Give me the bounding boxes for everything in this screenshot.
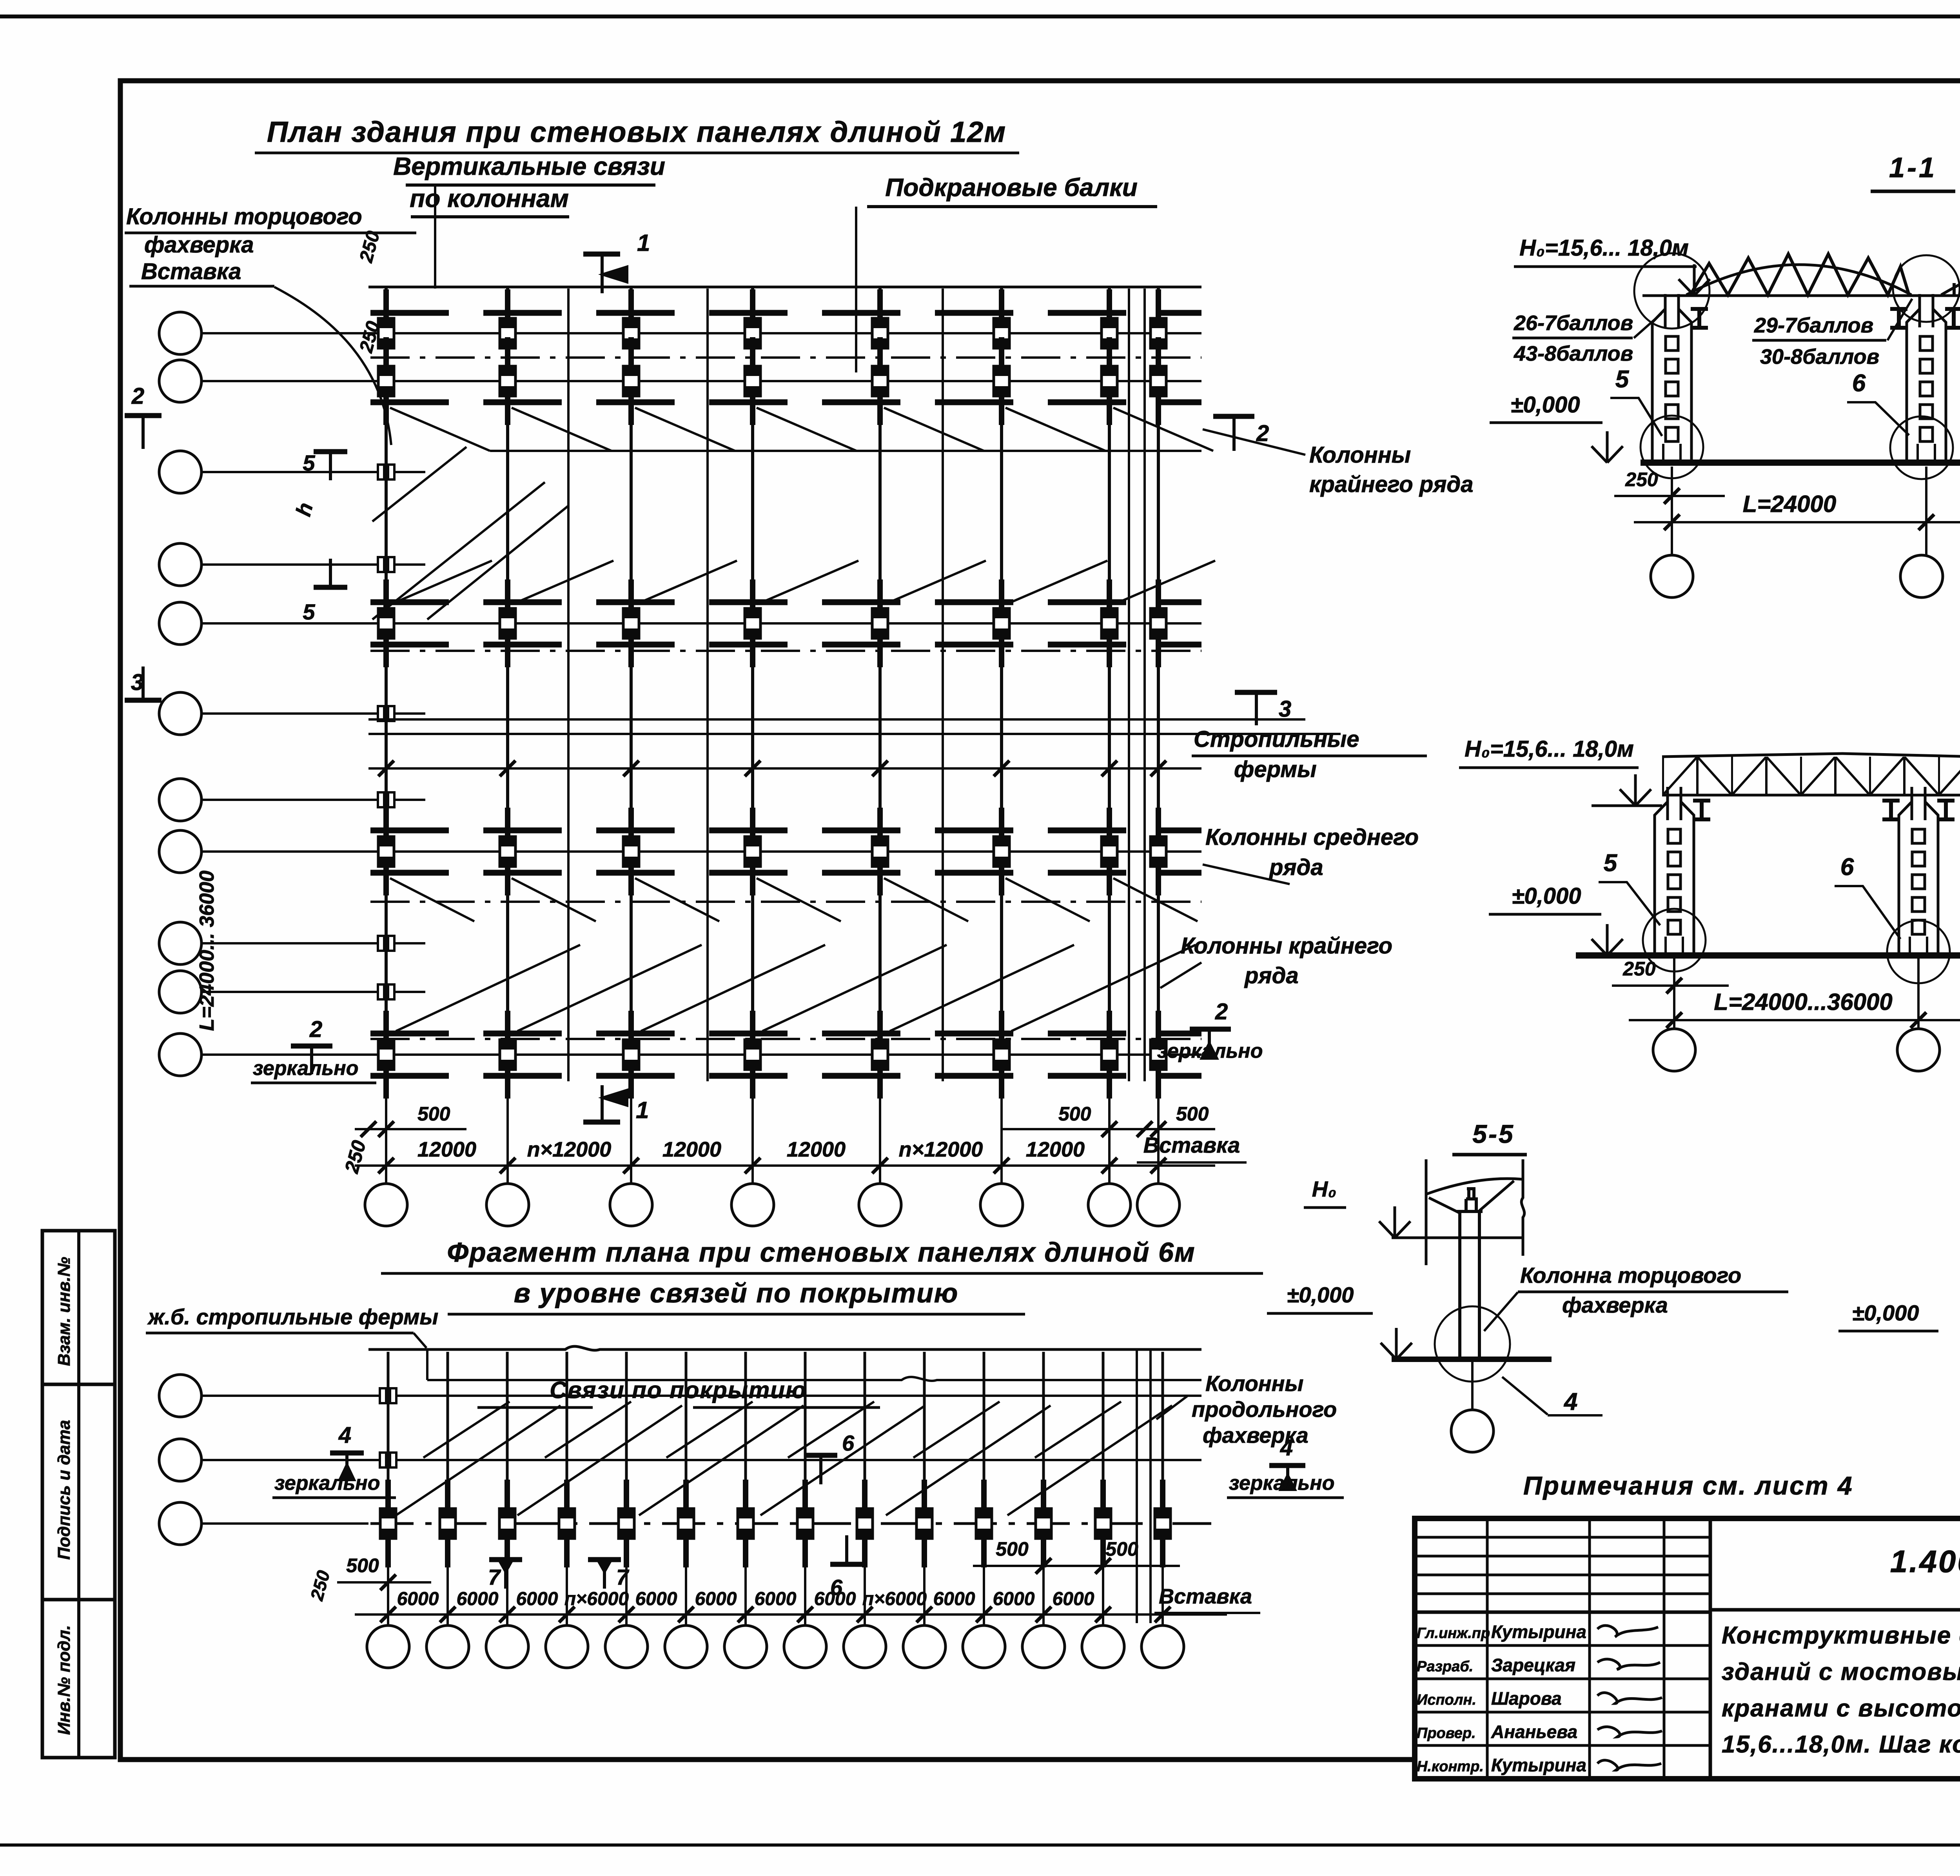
svg-text:26-7баллов: 26-7баллов xyxy=(1514,311,1633,335)
plan main dimension line xyxy=(355,1164,1215,1167)
svg-text:29-7баллов: 29-7баллов xyxy=(1754,314,1873,337)
section B axis bubbles xyxy=(1653,1029,1695,1071)
svg-text:5-5: 5-5 xyxy=(1472,1119,1514,1148)
svg-text:H₀=15,6... 18,0м: H₀=15,6... 18,0м xyxy=(1465,736,1634,762)
svg-text:по колоннам: по колоннам xyxy=(410,184,569,212)
fragment mark 7 b xyxy=(588,1557,621,1562)
svg-text:Разраб.: Разраб. xyxy=(1417,1658,1473,1675)
signature squiggle xyxy=(1597,1693,1662,1703)
fragment left axis bubbles xyxy=(159,1375,201,1417)
section mark 1 top xyxy=(583,252,620,257)
svg-text:кранами с высотой этажа: кранами с высотой этажа xyxy=(1722,1695,1960,1722)
section mark 1 bottom xyxy=(583,1120,620,1125)
svg-text:фахверка: фахверка xyxy=(144,232,254,258)
svg-text:ряда: ряда xyxy=(1269,855,1323,880)
svg-text:зеркально: зеркально xyxy=(1229,1472,1334,1495)
svg-text:H₀=15,6... 18,0м: H₀=15,6... 18,0м xyxy=(1519,235,1689,261)
svg-text:12000: 12000 xyxy=(1026,1138,1085,1161)
svg-text:6: 6 xyxy=(842,1431,855,1455)
svg-text:6000: 6000 xyxy=(457,1589,499,1609)
svg-text:Шарова: Шарова xyxy=(1491,1688,1562,1709)
svg-text:±0,000: ±0,000 xyxy=(1287,1282,1354,1307)
svg-text:Зарецкая: Зарецкая xyxy=(1491,1655,1575,1675)
svg-text:Колонны крайнего: Колонны крайнего xyxy=(1181,933,1392,959)
svg-text:Подпись и дата: Подпись и дата xyxy=(54,1420,74,1560)
svg-text:43-8баллов: 43-8баллов xyxy=(1514,342,1633,365)
section mark 5 upper xyxy=(314,449,347,454)
section B truss chords xyxy=(1592,805,1662,807)
svg-text:Колонны торцового: Колонны торцового xyxy=(126,204,362,229)
svg-text:6000: 6000 xyxy=(1053,1589,1094,1609)
fragment main dimension line xyxy=(355,1613,1227,1616)
svg-text:6000: 6000 xyxy=(516,1589,558,1609)
plan bottom axis bubbles xyxy=(365,1184,407,1226)
svg-text:Примечания см. лист 4: Примечания см. лист 4 xyxy=(1523,1471,1853,1500)
svg-text:L=24000: L=24000 xyxy=(1743,491,1837,517)
fragment mark 7 a xyxy=(489,1557,522,1562)
svg-text:4: 4 xyxy=(338,1422,351,1448)
svg-text:Конструктивные схемы каркасов: Конструктивные схемы каркасов xyxy=(1722,1622,1960,1649)
svg-text:500: 500 xyxy=(996,1538,1029,1560)
svg-text:6: 6 xyxy=(1840,854,1854,881)
svg-text:фахверка: фахверка xyxy=(1562,1293,1668,1317)
svg-text:3: 3 xyxy=(1279,696,1291,722)
svg-text:ж.б. стропильные фермы: ж.б. стропильные фермы xyxy=(147,1304,438,1329)
svg-text:Вставка: Вставка xyxy=(1143,1133,1240,1157)
svg-text:H₀: H₀ xyxy=(1312,1177,1337,1201)
svg-text:1-1: 1-1 xyxy=(1889,152,1937,183)
svg-text:План здания при стеновых панел: План здания при стеновых панелях длиной … xyxy=(267,116,1006,148)
svg-text:L=24000... 36000: L=24000... 36000 xyxy=(196,870,218,1031)
svg-text:Фрагмент плана при стеновых па: Фрагмент плана при стеновых панелях длин… xyxy=(447,1237,1195,1268)
plan long hatch band lower xyxy=(396,945,1196,1031)
svg-text:Провер.: Провер. xyxy=(1417,1725,1476,1742)
plan bracing diagonals under row D xyxy=(390,878,1198,921)
svg-text:4: 4 xyxy=(1280,1435,1293,1460)
detail 5-5 column xyxy=(1457,1190,1483,1359)
svg-text:зеркально: зеркально xyxy=(274,1472,380,1495)
fragment axis bubbles xyxy=(367,1625,409,1668)
signature squiggle xyxy=(1597,1625,1658,1637)
svg-text:6000: 6000 xyxy=(814,1589,856,1609)
svg-text:500: 500 xyxy=(1105,1538,1138,1560)
svg-text:Ананьева: Ананьева xyxy=(1491,1722,1577,1742)
svg-text:6000: 6000 xyxy=(695,1589,737,1609)
svg-text:Инв.№ подл.: Инв.№ подл. xyxy=(54,1625,74,1735)
svg-text:Гл.инж.пр: Гл.инж.пр xyxy=(1417,1625,1490,1642)
plan crane axis dash-dot lines xyxy=(370,356,1201,359)
svg-text:Колонны среднего: Колонны среднего xyxy=(1205,824,1419,850)
section B columns xyxy=(1655,787,1710,955)
svg-text:±0,000: ±0,000 xyxy=(1512,883,1581,909)
fragment roof bracing diagonals xyxy=(396,1406,1172,1515)
svg-text:Вертикальные связи: Вертикальные связи xyxy=(393,152,665,180)
left margin stamp boxes xyxy=(42,1231,115,1758)
section B bottom chord xyxy=(1662,794,1960,797)
svg-text:30-8баллов: 30-8баллов xyxy=(1760,345,1879,369)
plan column symbols row y=850 xyxy=(378,289,1166,377)
svg-text:L=24000...36000: L=24000...36000 xyxy=(1714,989,1892,1015)
svg-text:±0,000: ±0,000 xyxy=(1511,392,1580,418)
section A main dimension line xyxy=(1634,521,1960,523)
svg-text:±0,000: ±0,000 xyxy=(1852,1300,1919,1325)
plan break verticals xyxy=(567,289,570,1081)
svg-text:2: 2 xyxy=(309,1017,322,1042)
section B detail circles xyxy=(1643,909,1706,972)
plan left axis lines xyxy=(201,332,1201,334)
title block outer box xyxy=(1415,1518,1960,1779)
svg-text:6000: 6000 xyxy=(635,1589,677,1609)
detail 5-5 mark 4 xyxy=(1502,1377,1602,1415)
svg-text:Кутырина: Кутырина xyxy=(1491,1622,1586,1642)
svg-text:250: 250 xyxy=(1625,469,1658,490)
plan column symbols row y=2690 xyxy=(378,1011,1166,1099)
svg-text:6000: 6000 xyxy=(397,1589,439,1609)
svg-text:Кутырина: Кутырина xyxy=(1491,1755,1586,1775)
svg-text:6000: 6000 xyxy=(993,1589,1035,1609)
svg-text:15,6...18,0м. Шаг колонн 12м: 15,6...18,0м. Шаг колонн 12м xyxy=(1722,1731,1960,1758)
svg-text:1.400.1-20С.0-15: 1.400.1-20С.0-15 xyxy=(1890,1544,1960,1579)
section A arch truss 2 left of break xyxy=(1941,260,1960,295)
fragment extra wall verticals xyxy=(1136,1349,1138,1623)
section A ground line xyxy=(1641,459,1960,466)
detail 5-5 base circle xyxy=(1435,1306,1510,1382)
plan bottom small dim 500 right xyxy=(1002,1128,1215,1130)
svg-text:12000: 12000 xyxy=(662,1138,721,1161)
svg-text:5: 5 xyxy=(1615,366,1630,393)
svg-text:250: 250 xyxy=(1622,958,1656,980)
svg-text:6000: 6000 xyxy=(755,1589,797,1609)
leader vstavka curve xyxy=(274,287,391,445)
svg-text:5: 5 xyxy=(303,450,315,475)
plan wall panel dashes row C xyxy=(370,599,1201,605)
section B top chord xyxy=(1662,754,1960,758)
svg-text:Подкрановые балки: Подкрановые балки xyxy=(885,173,1138,202)
plan column symbols row y=1590 xyxy=(378,579,1166,667)
svg-text:1: 1 xyxy=(636,1097,649,1123)
section mark 2 right xyxy=(1213,414,1254,419)
svg-text:п×6000: п×6000 xyxy=(564,1589,629,1609)
section A columns xyxy=(1652,294,1708,463)
signature squiggle xyxy=(1597,1760,1661,1770)
svg-text:Колонна торцового: Колонна торцового xyxy=(1520,1263,1741,1288)
svg-text:1: 1 xyxy=(637,230,650,256)
fragment left fachwerk symbols xyxy=(367,1388,410,1467)
title block left table xyxy=(1415,1536,1710,1539)
svg-text:Колонны: Колонны xyxy=(1205,1371,1303,1396)
svg-text:фермы: фермы xyxy=(1234,757,1317,782)
svg-text:6000: 6000 xyxy=(933,1589,975,1609)
svg-text:2: 2 xyxy=(131,383,144,409)
svg-text:7: 7 xyxy=(616,1565,630,1589)
detail 5-5 truss fragment xyxy=(1392,1159,1524,1265)
svg-text:Стропильные: Стропильные xyxy=(1194,726,1359,752)
sheet top border line xyxy=(0,15,1960,18)
plan bracing diagonals under row B xyxy=(390,408,1213,451)
svg-text:продольного: продольного xyxy=(1192,1397,1337,1422)
svg-text:Взам. инв.№: Взам. инв.№ xyxy=(54,1257,74,1366)
svg-text:зеркально: зеркально xyxy=(253,1057,358,1080)
plan column symbols row y=972 xyxy=(378,337,1166,425)
section A arch truss 1 with diagonals xyxy=(1686,265,1911,295)
section B ground line xyxy=(1576,952,1960,959)
svg-text:зеркально: зеркально xyxy=(1157,1040,1263,1062)
fragment vertical grid lines xyxy=(387,1352,390,1524)
svg-text:крайнего ряда: крайнего ряда xyxy=(1309,472,1474,497)
svg-text:Вставка: Вставка xyxy=(1159,1585,1252,1608)
plan wall panel dashes row A xyxy=(370,310,1201,316)
svg-text:7: 7 xyxy=(488,1565,501,1589)
svg-text:500: 500 xyxy=(417,1103,450,1125)
section mark 3 right xyxy=(1235,690,1277,695)
plan bracing line under row B xyxy=(490,450,1201,452)
fragment mark 6 a xyxy=(804,1453,837,1458)
fragment mark 6 b xyxy=(830,1562,863,1567)
section mark 5 lower xyxy=(314,585,347,590)
svg-text:2: 2 xyxy=(1215,999,1228,1024)
svg-text:Н.контр.: Н.контр. xyxy=(1417,1758,1484,1775)
signature squiggle xyxy=(1597,1659,1660,1669)
section A truss bottom chord xyxy=(1642,294,1960,297)
fragment column symbols xyxy=(380,1480,1171,1567)
plan bracing diagonals above row C xyxy=(392,561,1215,604)
svg-text:Вставка: Вставка xyxy=(141,259,241,284)
section A axis bubbles xyxy=(1651,555,1693,597)
plan bottom small dim 500 left xyxy=(355,1128,466,1130)
signature squiggle xyxy=(1597,1727,1662,1737)
svg-text:5: 5 xyxy=(303,599,315,624)
plan wall panel dashes row E xyxy=(370,1031,1201,1037)
section B main dimension line xyxy=(1629,1019,1960,1021)
svg-text:Колонны: Колонны xyxy=(1309,442,1411,468)
plan wall panel dashes row B xyxy=(370,400,1201,405)
svg-text:3: 3 xyxy=(131,670,143,695)
section mark 3 left xyxy=(125,698,162,703)
fragment top chord lines xyxy=(368,1346,1201,1350)
leader vertical ties xyxy=(434,185,436,289)
section mark 2 left xyxy=(125,413,162,418)
svg-text:n×12000: n×12000 xyxy=(899,1138,983,1161)
plan gable fachwerk columns xyxy=(365,465,408,999)
plan wall panel dashes row D xyxy=(370,828,1201,834)
plan left axis bubbles xyxy=(159,312,201,354)
svg-text:Исполн.: Исполн. xyxy=(1417,1692,1476,1708)
svg-text:в уровне связей по покрытию: в уровне связей по покрытию xyxy=(514,1278,959,1308)
plan column symbols row y=2172 xyxy=(378,808,1166,895)
svg-text:500: 500 xyxy=(1058,1103,1091,1125)
svg-text:4: 4 xyxy=(1563,1388,1577,1415)
fragment row axis dash-dot xyxy=(370,1522,1211,1525)
svg-text:5: 5 xyxy=(1604,850,1618,877)
leader crane beams xyxy=(855,207,857,372)
svg-text:ряда: ряда xyxy=(1244,963,1299,988)
svg-text:500: 500 xyxy=(346,1555,379,1576)
svg-text:зданий с мостовыми опорными: зданий с мостовыми опорными xyxy=(1722,1658,1960,1685)
svg-text:12000: 12000 xyxy=(417,1138,476,1161)
svg-text:Связи по покрытию: Связи по покрытию xyxy=(550,1377,807,1403)
svg-text:12000: 12000 xyxy=(787,1138,846,1161)
plan vertical grid lines xyxy=(385,287,388,1082)
svg-text:6: 6 xyxy=(1852,370,1866,397)
svg-text:n×12000: n×12000 xyxy=(527,1138,612,1161)
svg-text:500: 500 xyxy=(1176,1103,1209,1125)
plan roof truss lines xyxy=(368,718,1305,721)
detail 5-5 ground line xyxy=(1392,1357,1552,1362)
plan outline top line xyxy=(368,286,1201,289)
section B truss web xyxy=(1662,757,1960,795)
plan long hatch band left upper xyxy=(372,447,568,619)
section A detail circles xyxy=(1634,253,1710,329)
sheet bottom border line xyxy=(0,1843,1960,1847)
svg-text:п×6000: п×6000 xyxy=(862,1589,927,1609)
